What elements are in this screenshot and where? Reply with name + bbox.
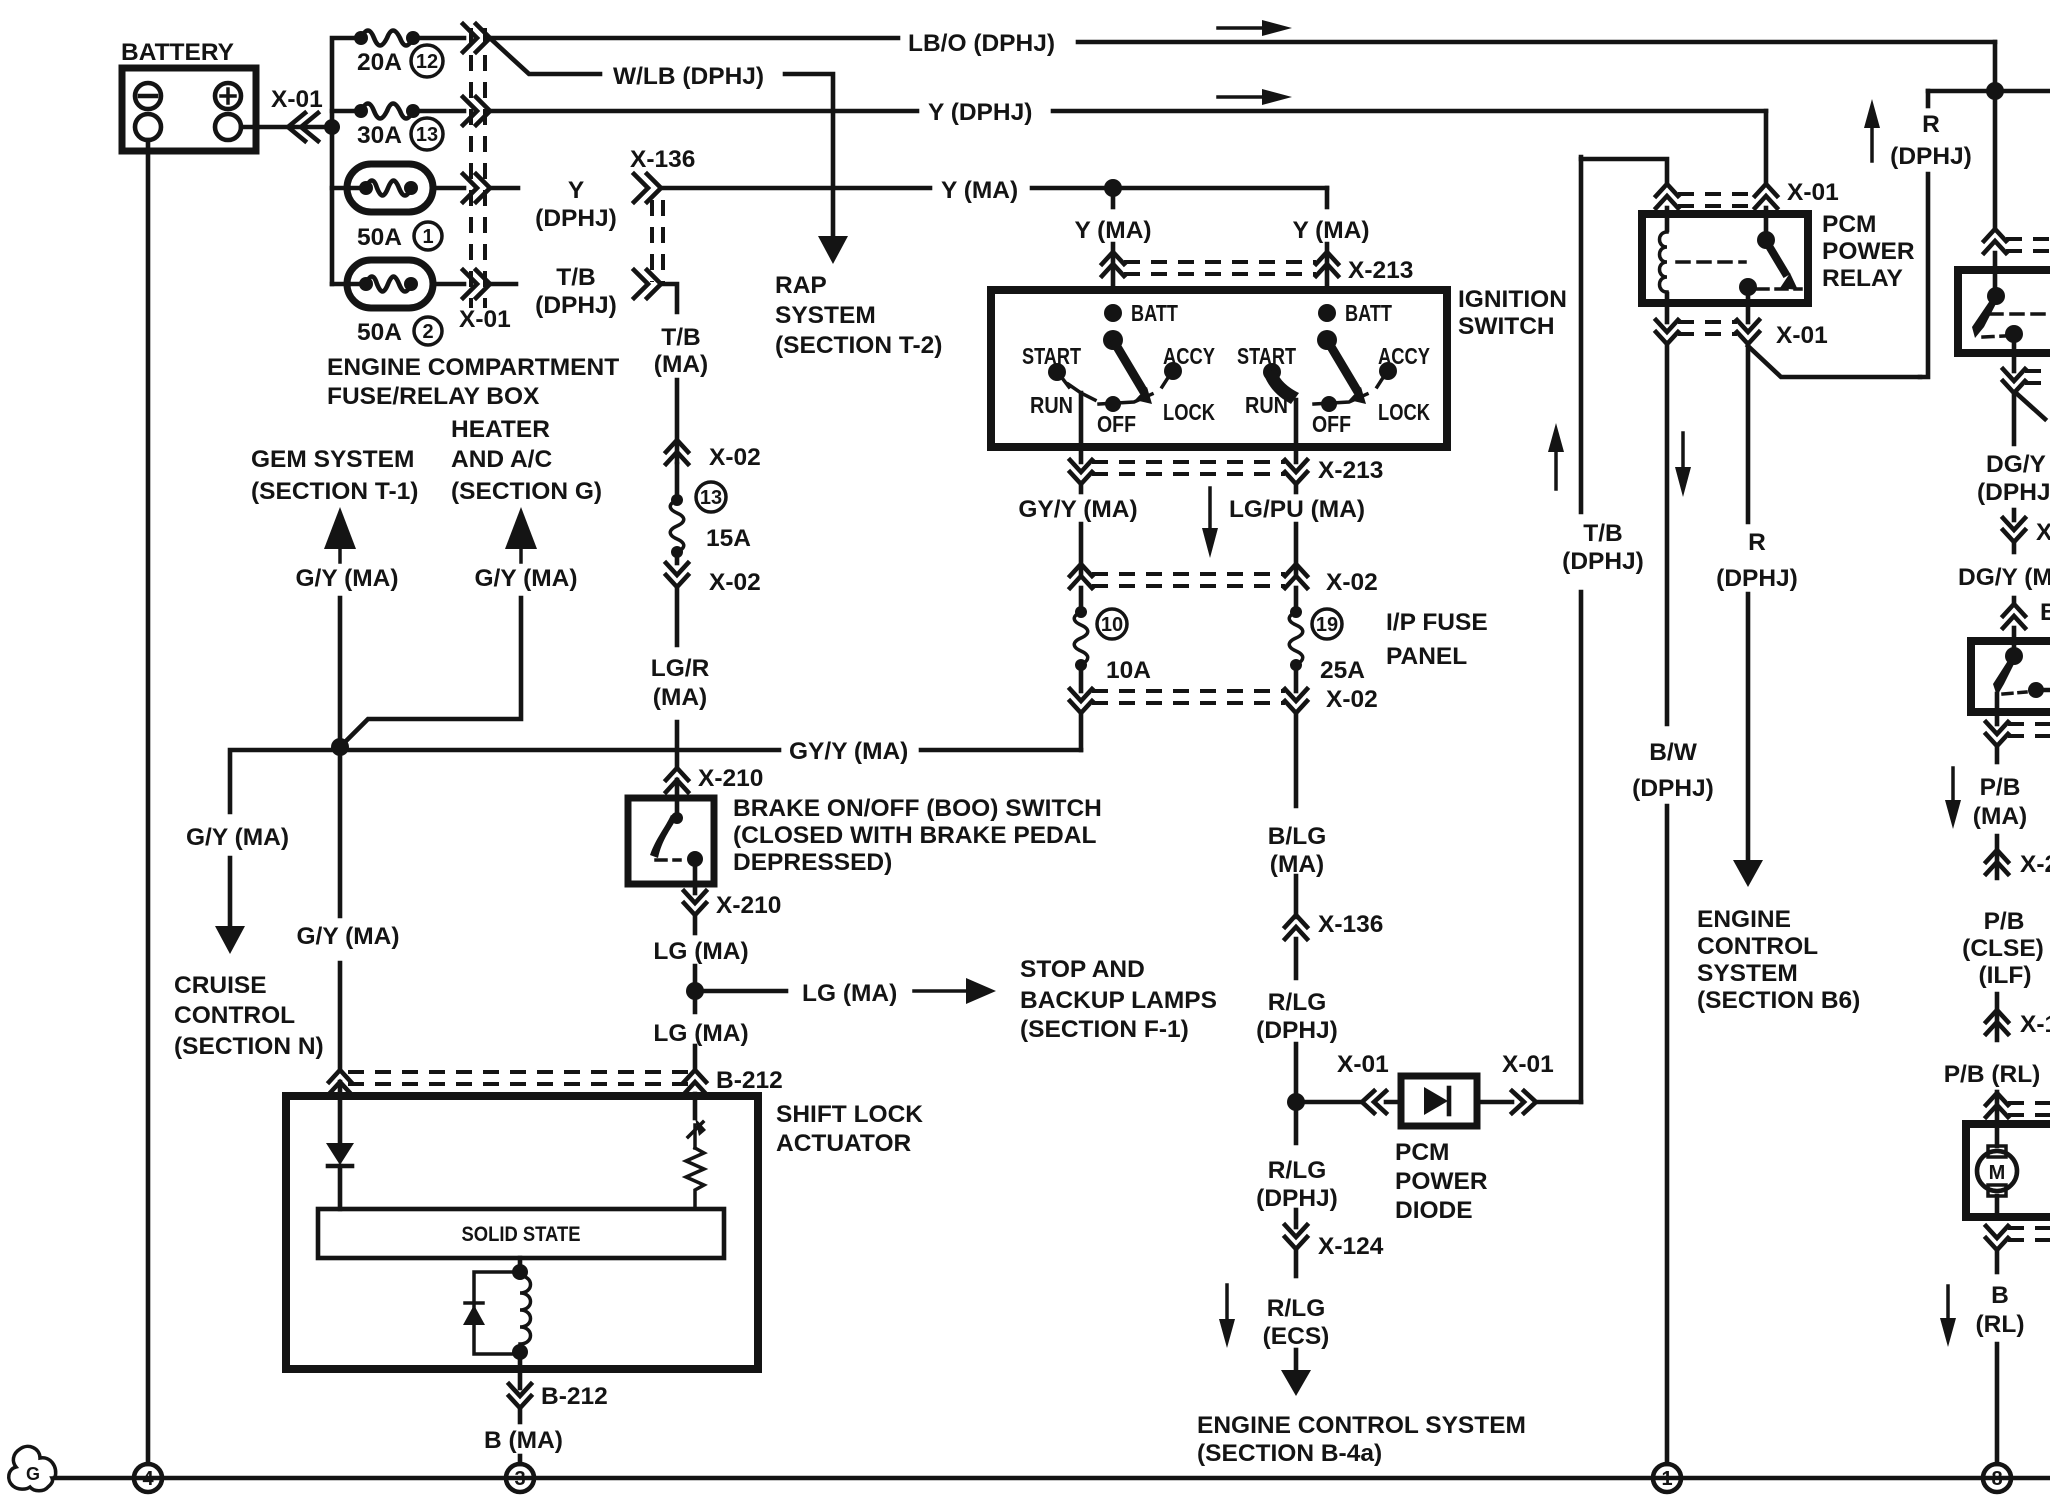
svg-text:G/Y (MA): G/Y (MA) — [186, 824, 289, 851]
wire fuse supply bus — [332, 38, 361, 284]
connector dashes motor top — [2008, 1101, 2050, 1105]
wire LG (MA) lower — [693, 1046, 698, 1070]
svg-text:1: 1 — [1661, 1468, 1672, 1490]
svg-text:LG/PU (MA): LG/PU (MA) — [1229, 496, 1365, 523]
fuse F12 20A — [354, 31, 368, 45]
svg-text:(DPHJ): (DPHJ) — [535, 205, 617, 232]
node coil bottom junction — [512, 1344, 528, 1360]
wire fuse bus to fusible link 1 — [332, 186, 361, 191]
shift lock actuator box — [286, 1096, 758, 1369]
right relay 2 switch — [2005, 647, 2023, 665]
PCM power relay box — [1642, 214, 1808, 303]
wire relay switch common down — [1746, 289, 1751, 322]
connector X-136 vertical dashed — [650, 200, 654, 282]
wire Y (DPHJ) top run — [490, 109, 917, 114]
battery B1 box — [122, 68, 256, 151]
ignition right OFF contact — [1321, 396, 1337, 412]
connector B-212 dashed lines — [348, 1070, 688, 1074]
wires to lower X-02 — [1079, 665, 1084, 691]
svg-text:B (MA): B (MA) — [484, 1427, 563, 1454]
wire B/W (DPHJ) down — [1665, 344, 1670, 724]
connector B-212 chevrons up right — [684, 1070, 706, 1082]
connector chevrons below box 1 — [2003, 369, 2025, 381]
wire coil to B-212 — [518, 1354, 523, 1388]
wire R/LG (DPHJ) upper — [1294, 939, 1299, 978]
svg-text:R/LG: R/LG — [1268, 1157, 1327, 1184]
right relay 1 switch — [1987, 287, 2005, 305]
svg-text:G: G — [26, 1464, 40, 1484]
solid state module box — [318, 1209, 724, 1258]
svg-text:X-213: X-213 — [1318, 457, 1383, 484]
battery lower-left terminal — [135, 114, 161, 140]
svg-text:SHIFT LOCK: SHIFT LOCK — [776, 1101, 923, 1128]
wire T/B (MA) down — [675, 380, 680, 462]
ignition switch box — [991, 290, 1447, 447]
svg-text:B-212: B-212 — [541, 1383, 608, 1410]
arrowhead engine control system B-4a — [1281, 1370, 1311, 1396]
wire to X-2 connector — [1995, 836, 2000, 878]
connector X-01 diode right chevrons — [1512, 1091, 1524, 1113]
wire G/Y down from junction to shift lock — [338, 747, 343, 916]
connector B-212 chevrons down — [509, 1384, 531, 1396]
svg-text:ACCY: ACCY — [1378, 343, 1430, 369]
svg-text:(SECTION G): (SECTION G) — [451, 478, 602, 505]
ignition right pole pivot — [1317, 330, 1337, 350]
connector X-02 chevrons down on T/B — [666, 563, 688, 575]
svg-text:X-213: X-213 — [1348, 257, 1413, 284]
node LG junction — [686, 982, 704, 1000]
ignition right pole BATT pin — [1318, 304, 1336, 322]
svg-text:B-212: B-212 — [716, 1067, 783, 1094]
arrow to GEM system — [324, 507, 356, 549]
fuse F10 10A — [1079, 588, 1084, 612]
arrowhead engine control system B6 — [1733, 860, 1763, 887]
svg-text:(DPHJ): (DPHJ) — [1716, 565, 1798, 592]
svg-text:X-210: X-210 — [698, 765, 763, 792]
svg-text:(MA): (MA) — [1973, 803, 2027, 830]
wire R riser top run right — [1928, 89, 2050, 94]
connector X-213 bottom dashed lines — [1092, 460, 1285, 464]
svg-text:(DPHJ): (DPHJ) — [1632, 775, 1714, 802]
arrow flow right on LB/O — [1218, 26, 1268, 30]
svg-text:G/Y (MA): G/Y (MA) — [297, 923, 400, 950]
wire R/LG (DPHJ) lower — [1294, 1102, 1299, 1143]
connector X-02 chevrons up on T/B — [666, 440, 688, 452]
wire junction to diode — [1296, 1100, 1360, 1105]
wire B (MA) to ground bus — [518, 1456, 523, 1464]
svg-text:X-01: X-01 — [1787, 179, 1839, 206]
connector X-136 chevrons on T/B wire — [634, 270, 648, 298]
wire diode output to T/B riser — [1536, 1100, 1581, 1105]
wire T/B fuse output — [490, 282, 516, 287]
svg-text:(ILF): (ILF) — [1978, 962, 2031, 989]
battery negative terminal — [135, 83, 161, 109]
svg-text:RUN: RUN — [1030, 392, 1073, 418]
wire to motor connector — [1995, 1092, 2000, 1120]
wire G/Y to heater — [340, 598, 521, 747]
wire LB/O corner down right column — [1993, 42, 1998, 229]
fusible link 1 50A — [347, 164, 433, 212]
svg-text:DG/Y (M: DG/Y (M — [1958, 564, 2050, 591]
wire ground from battery to bus — [146, 140, 151, 1464]
ignition right START contact lever — [1263, 363, 1281, 381]
svg-text:BRAKE ON/OFF (BOO) SWITCH: BRAKE ON/OFF (BOO) SWITCH — [733, 795, 1102, 822]
svg-text:(CLSE): (CLSE) — [1962, 935, 2044, 962]
svg-text:SWITCH: SWITCH — [1458, 313, 1555, 340]
svg-text:(MA): (MA) — [653, 684, 707, 711]
resistor R1 shift lock — [686, 1148, 704, 1209]
svg-text:X-02: X-02 — [709, 569, 761, 596]
pin number 19 — [1312, 609, 1342, 639]
node battery bus junction — [324, 119, 340, 135]
wire fuse bus to F13 — [332, 109, 361, 114]
wire T/B riser top to relay coil — [1581, 159, 1667, 184]
svg-text:M: M — [1989, 1162, 2006, 1184]
svg-text:X-01: X-01 — [459, 306, 511, 333]
connector X-210 chevrons down — [684, 891, 706, 903]
coil L1 shift lock solenoid — [520, 1276, 531, 1344]
svg-text:START: START — [1022, 343, 1081, 369]
node R/LG diode junction — [1287, 1093, 1305, 1111]
ignition left START contact — [1048, 363, 1066, 381]
BOO switch contact — [671, 812, 683, 824]
svg-text:X-124: X-124 — [1318, 1233, 1384, 1260]
arrow flow up R riser — [1870, 120, 1874, 161]
node Y (MA) junction — [1104, 179, 1122, 197]
svg-text:LOCK: LOCK — [1163, 399, 1215, 425]
wire ignition left RUN down — [1079, 393, 1084, 462]
wire B/LG (MA) down — [1294, 713, 1299, 806]
arrowhead to cruise control — [215, 926, 245, 954]
svg-text:ENGINE COMPARTMENT: ENGINE COMPARTMENT — [327, 354, 619, 381]
svg-text:PCM: PCM — [1395, 1139, 1449, 1166]
connector dashes right column top — [2006, 237, 2050, 241]
svg-text:Y (DPHJ): Y (DPHJ) — [928, 99, 1032, 126]
relay coil K1 — [1665, 208, 1670, 230]
wire out of BOO switch — [693, 862, 698, 893]
svg-text:R: R — [1922, 111, 1940, 138]
connector X-213 top chevrons right — [1316, 252, 1338, 264]
svg-text:(CLOSED WITH BRAKE PEDAL: (CLOSED WITH BRAKE PEDAL — [733, 822, 1096, 849]
svg-text:BATT: BATT — [1131, 300, 1178, 326]
svg-text:RAP: RAP — [775, 272, 827, 299]
connector X-136 chevrons on B/LG — [1285, 915, 1307, 927]
svg-text:15A: 15A — [706, 525, 751, 552]
svg-text:ENGINE CONTROL SYSTEM: ENGINE CONTROL SYSTEM — [1197, 1412, 1526, 1439]
connector X-213 bottom chevrons left — [1070, 460, 1092, 472]
fuse F13 15A i/p panel — [671, 494, 683, 506]
wire battery positive to fuse bus — [241, 125, 332, 130]
ground point 8 — [1983, 1464, 2011, 1492]
connector X-01 column dashed — [469, 28, 473, 308]
connector chevrons X-1 up — [1986, 1010, 2008, 1022]
wire G/Y to GEM — [338, 598, 343, 747]
connector X-02 mid chevrons left — [1070, 564, 1092, 576]
pin number 1 — [414, 222, 442, 250]
svg-text:Y (MA): Y (MA) — [1074, 217, 1151, 244]
svg-text:X-02: X-02 — [1326, 569, 1378, 596]
wire Y fuse output — [490, 186, 518, 191]
battery positive terminal — [215, 83, 241, 109]
svg-text:(DPHJ): (DPHJ) — [1562, 548, 1644, 575]
connector X-136 chevrons on Y wire — [634, 174, 648, 202]
wire fuse bus to fusible link 2 — [332, 282, 361, 287]
svg-text:X-136: X-136 — [630, 146, 695, 173]
diode D1 shift lock left — [326, 1143, 354, 1165]
wire R (DPHJ) down to engine control — [1746, 344, 1751, 522]
connector X-210 chevrons up — [666, 768, 688, 780]
svg-text:G/Y (MA): G/Y (MA) — [296, 565, 399, 592]
connector chevrons on 30A wire — [463, 97, 477, 125]
connector X-02 mid chevrons right — [1285, 564, 1307, 576]
svg-text:START: START — [1237, 343, 1296, 369]
arrow flow right on Y (DPHJ) — [1218, 95, 1268, 99]
svg-text:(RL): (RL) — [1976, 1311, 2025, 1338]
svg-text:AND A/C: AND A/C — [451, 446, 552, 473]
PCM power diode box — [1401, 1076, 1477, 1126]
svg-text:(SECTION T-1): (SECTION T-1) — [251, 478, 418, 505]
relay coil-contact dashed link — [1677, 260, 1745, 264]
svg-text:OFF: OFF — [1097, 411, 1136, 437]
svg-text:50A: 50A — [357, 319, 402, 346]
connector chevrons X-2 up — [1986, 850, 2008, 862]
connector chevrons below box 2 — [1986, 722, 2008, 734]
svg-text:DG/Y: DG/Y — [1986, 451, 2046, 478]
arrow to heater — [505, 507, 537, 549]
wire LG/PU into fuse panel — [1294, 484, 1299, 492]
pin number 12 — [411, 45, 443, 77]
connector X-01 relay bottom chevrons right — [1737, 320, 1759, 332]
svg-text:DEPRESSED): DEPRESSED) — [733, 849, 892, 876]
svg-text:(SECTION T-2): (SECTION T-2) — [775, 332, 942, 359]
svg-text:(SECTION B-4a): (SECTION B-4a) — [1197, 1440, 1382, 1467]
wire to engine control system B-4a — [1294, 1350, 1299, 1372]
wire to DG/Y connector — [2012, 510, 2017, 520]
svg-text:CONTROL: CONTROL — [1697, 933, 1818, 960]
connector chevrons on 50A-1 wire — [463, 174, 477, 202]
svg-text:LG (MA): LG (MA) — [802, 980, 897, 1007]
ground bus — [55, 1476, 2050, 1481]
ground point 4 — [134, 1464, 162, 1492]
svg-text:RUN: RUN — [1245, 392, 1288, 418]
wire solid state to coil — [518, 1258, 523, 1272]
svg-text:10A: 10A — [1106, 657, 1151, 684]
motor box — [1966, 1124, 2050, 1217]
ignition left OFF contact — [1105, 396, 1121, 412]
svg-text:T/B: T/B — [556, 264, 595, 291]
wire B (MA) — [518, 1408, 523, 1422]
wire LG branch to stop lamps — [695, 989, 786, 994]
svg-text:R/LG: R/LG — [1267, 1295, 1326, 1322]
svg-text:(DPHJ): (DPHJ) — [535, 292, 617, 319]
svg-text:1: 1 — [422, 226, 433, 248]
svg-text:ACCY: ACCY — [1163, 343, 1215, 369]
wire into BOO switch — [675, 780, 680, 815]
svg-text:(SECTION B6): (SECTION B6) — [1697, 987, 1860, 1014]
svg-text:R: R — [1748, 529, 1766, 556]
svg-text:X-01: X-01 — [1776, 322, 1828, 349]
ignition left pole pivot — [1103, 330, 1123, 350]
svg-text:LG/R: LG/R — [651, 655, 710, 682]
svg-text:30A: 30A — [357, 122, 402, 149]
svg-text:(DPHJ: (DPHJ — [1977, 479, 2050, 506]
connector X-01 relay bottom chevrons left — [1656, 320, 1678, 332]
svg-text:X-02: X-02 — [709, 444, 761, 471]
wire Y (MA) to right ignition feed — [1325, 188, 1330, 207]
wire DG/Y segment — [2012, 393, 2017, 444]
wire Y (MA) to left ignition feed — [1111, 188, 1116, 207]
wire ignition right RUN down — [1294, 400, 1299, 462]
arrow flow down R/LG (ECS) — [1225, 1285, 1229, 1325]
svg-text:(DPHJ): (DPHJ) — [1256, 1017, 1338, 1044]
fuse F19 25A — [1294, 588, 1299, 612]
connector X-01 diode left chevrons — [1362, 1091, 1374, 1113]
wire Y (DPHJ) into relay switch — [1764, 111, 1769, 184]
svg-text:12: 12 — [416, 51, 438, 73]
svg-text:CRUISE: CRUISE — [174, 972, 267, 999]
diode D3 across coil — [474, 1272, 520, 1354]
wire into shift lock right — [693, 1094, 698, 1118]
svg-text:LG (MA): LG (MA) — [653, 938, 748, 965]
pin number 13 i/p panel — [696, 482, 726, 512]
svg-text:ACTUATOR: ACTUATOR — [776, 1130, 911, 1157]
svg-text:HEATER: HEATER — [451, 416, 550, 443]
node coil top junction — [512, 1264, 528, 1280]
arrowhead to RAP system — [818, 236, 848, 264]
svg-text:PCM: PCM — [1822, 211, 1876, 238]
connector dashes below box 2 — [2008, 722, 2050, 726]
svg-text:GY/Y (MA): GY/Y (MA) — [789, 738, 908, 765]
svg-text:X-2: X-2 — [2020, 851, 2050, 878]
svg-text:13: 13 — [700, 487, 722, 509]
svg-text:B: B — [2040, 599, 2050, 626]
svg-text:POWER: POWER — [1822, 238, 1915, 265]
svg-text:(SECTION N): (SECTION N) — [174, 1033, 324, 1060]
wire W/LB branch diagonal — [492, 40, 600, 74]
wire GY/Y output turns left — [1079, 713, 1084, 750]
svg-text:DIODE: DIODE — [1395, 1197, 1473, 1224]
wire out of right relay box 2 — [1995, 694, 2000, 724]
svg-text:(MA): (MA) — [1270, 851, 1324, 878]
wire B (RL) upper — [1995, 1250, 2000, 1272]
svg-text:19: 19 — [1316, 614, 1338, 636]
right relay box 1 — [1958, 270, 2050, 353]
connector X-213 top dashed lines — [1124, 260, 1316, 264]
arrow flow down P/B — [1951, 768, 1955, 806]
connector X-01 relay top dashed lines — [1678, 192, 1755, 196]
wire R (DPHJ) riser up — [1920, 174, 1928, 377]
svg-text:FUSE/RELAY BOX: FUSE/RELAY BOX — [327, 383, 540, 410]
BOO switch box — [628, 798, 714, 884]
connector X-02 mid lower dashed lines — [1092, 689, 1285, 693]
ignition right pole lever — [1327, 340, 1358, 392]
svg-text:SYSTEM: SYSTEM — [1697, 960, 1798, 987]
wire to fuse 13 — [675, 464, 680, 500]
connector chevrons motor top — [1986, 1093, 2008, 1105]
svg-text:OFF: OFF — [1312, 411, 1351, 437]
diode D4 PCM power — [1424, 1087, 1448, 1115]
pin number 13 — [411, 118, 443, 150]
svg-text:LB/O (DPHJ): LB/O (DPHJ) — [908, 30, 1055, 57]
connector X-01 battery chevrons — [288, 113, 305, 141]
pin number 10 — [1097, 609, 1127, 639]
svg-text:X-01: X-01 — [271, 86, 323, 113]
connector chevrons right column top — [1984, 229, 2006, 241]
svg-text:50A: 50A — [357, 224, 402, 251]
wire R/LG (ECS) — [1294, 1249, 1299, 1276]
wire out of right relay box 1 — [2012, 336, 2017, 371]
svg-text:B/LG: B/LG — [1268, 823, 1327, 850]
wire Y (MA) run — [661, 186, 930, 191]
ignition right ACCY contact — [1379, 362, 1397, 380]
svg-text:X: X — [2036, 519, 2050, 546]
connector B-212 chevrons up left — [329, 1070, 351, 1082]
wire GY/Y into fuse panel — [1079, 484, 1084, 492]
connector X-01 relay bottom dashed lines — [1678, 320, 1737, 324]
svg-text:(ECS): (ECS) — [1263, 1323, 1330, 1350]
svg-text:G/Y (MA): G/Y (MA) — [475, 565, 578, 592]
svg-text:STOP AND: STOP AND — [1020, 956, 1145, 983]
ignition left RUN contact — [1068, 384, 1095, 400]
connector dashes below box 1 — [2025, 369, 2050, 373]
arrow flow down B (RL) — [1946, 1286, 1950, 1324]
svg-text:B: B — [1991, 1282, 2009, 1309]
wire to X-1 connector — [1995, 994, 2000, 1040]
connector X-124 chevrons down — [1285, 1225, 1307, 1237]
svg-text:X-1: X-1 — [2020, 1011, 2050, 1038]
ground symbol G — [9, 1446, 56, 1490]
svg-text:4: 4 — [142, 1468, 154, 1490]
svg-text:POWER: POWER — [1395, 1168, 1488, 1195]
wire R branch diagonal to riser — [1748, 346, 1920, 377]
wire B (RL) to ground bus — [1995, 1344, 2000, 1464]
ground point 3 — [506, 1464, 534, 1492]
arrow flow down between labels — [1208, 488, 1212, 534]
connector chevrons DG/Y up — [2012, 598, 2017, 604]
svg-text:2: 2 — [422, 321, 433, 343]
arrow flow down B/W — [1681, 433, 1685, 473]
fuse F13 30A — [354, 104, 368, 118]
svg-text:W/LB (DPHJ): W/LB (DPHJ) — [613, 63, 764, 90]
wire P/B segment — [1995, 746, 2000, 762]
svg-text:P/B (RL): P/B (RL) — [1944, 1061, 2041, 1088]
svg-text:BATT: BATT — [1345, 300, 1392, 326]
connector X-01 relay top chevrons right — [1755, 184, 1777, 196]
wire into right relay box 2 — [2012, 628, 2017, 656]
svg-text:20A: 20A — [357, 49, 402, 76]
wire diode to X-01 right — [1477, 1100, 1512, 1105]
svg-text:(DPHJ): (DPHJ) — [1890, 143, 1972, 170]
wire T/B corner down — [661, 284, 677, 312]
svg-text:SYSTEM: SYSTEM — [775, 302, 876, 329]
svg-text:T/B: T/B — [661, 324, 700, 351]
svg-text:R/LG: R/LG — [1268, 989, 1327, 1016]
svg-text:Y: Y — [568, 177, 584, 204]
svg-text:13: 13 — [416, 124, 438, 146]
connector chevrons DG/Y down — [2003, 518, 2025, 530]
svg-text:LOCK: LOCK — [1378, 399, 1430, 425]
connector chevrons on 20A wire — [463, 24, 477, 52]
diode D2 shift lock right — [695, 1118, 706, 1136]
svg-text:BACKUP LAMPS: BACKUP LAMPS — [1020, 987, 1217, 1014]
svg-text:X-01: X-01 — [1502, 1051, 1554, 1078]
connector chevrons motor bottom — [1986, 1226, 2008, 1238]
connector X-02 mid lower chevrons right — [1285, 689, 1307, 701]
motor M1 — [1995, 1124, 2000, 1146]
svg-text:GY/Y (MA): GY/Y (MA) — [1018, 496, 1137, 523]
connector X-02 mid lower chevrons left — [1070, 689, 1092, 701]
ignition left ACCY contact — [1164, 362, 1182, 380]
